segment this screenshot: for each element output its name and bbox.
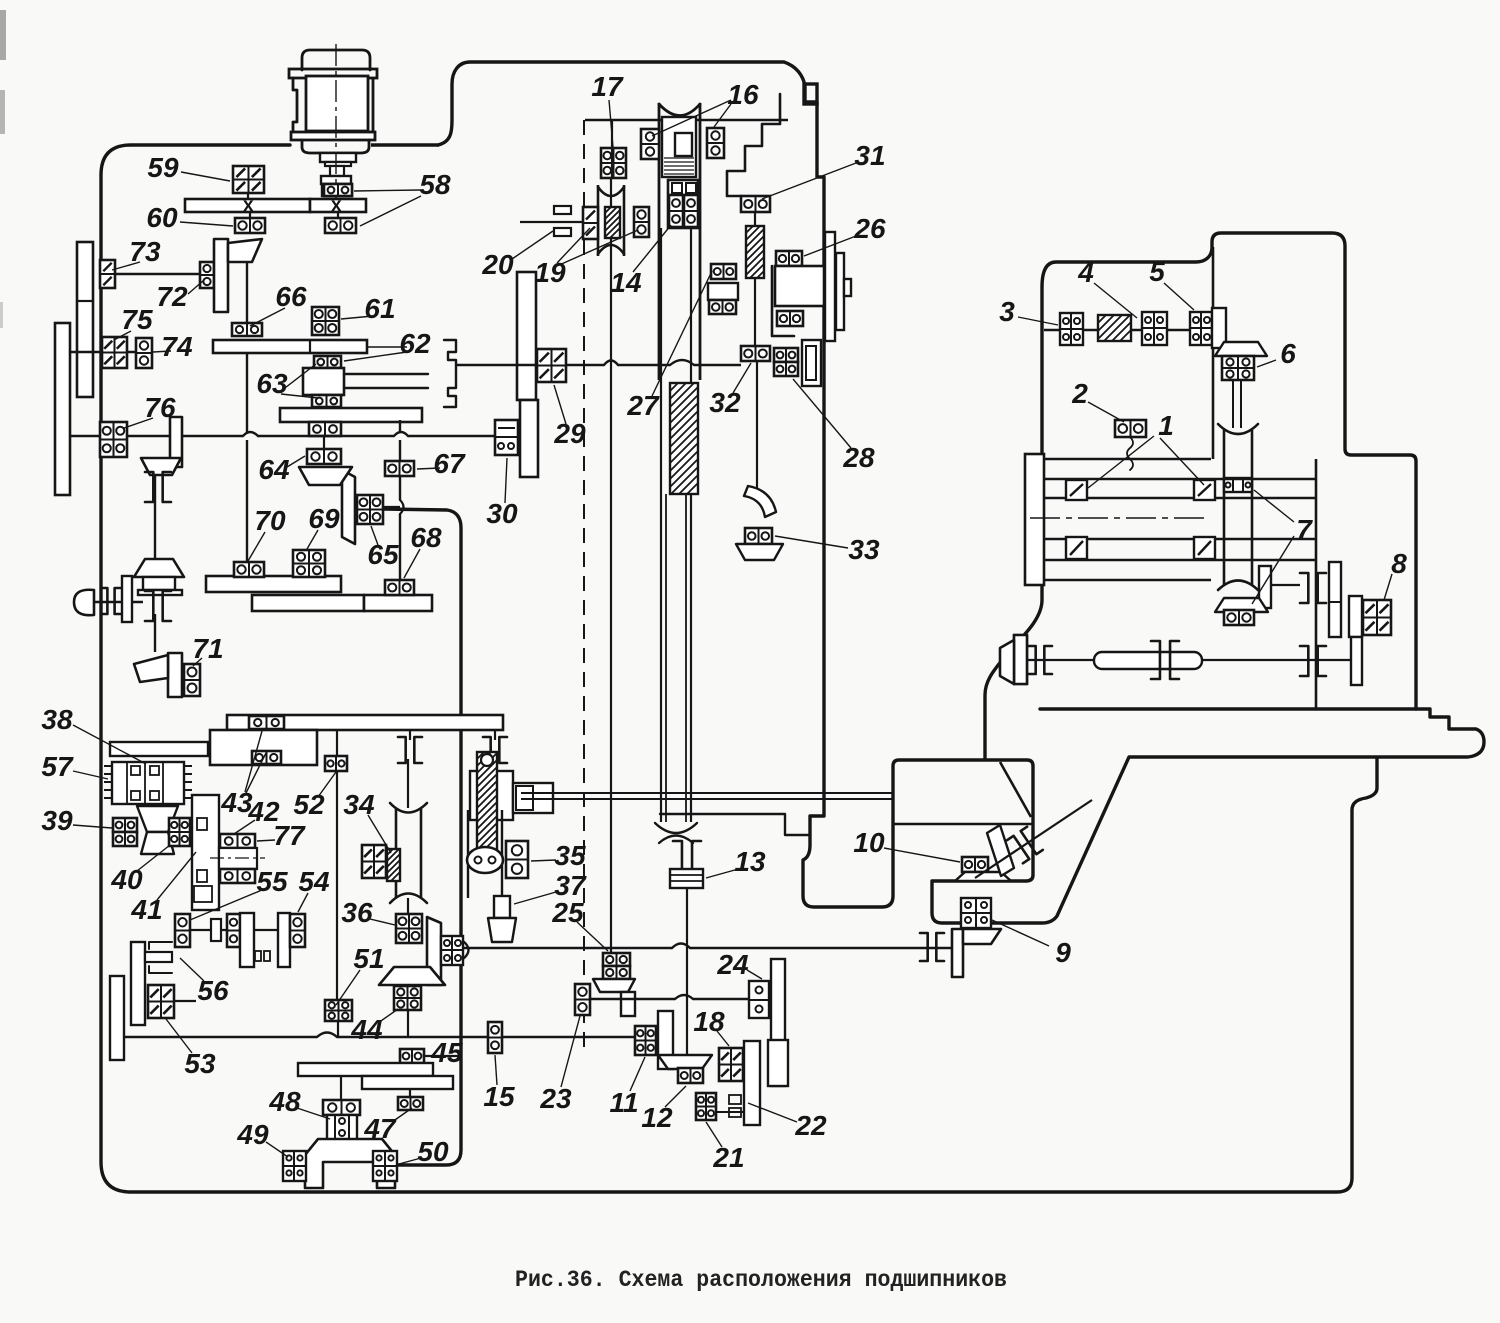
motor bottom cap xyxy=(302,140,369,153)
band body bottom xyxy=(1044,538,1316,540)
screw right line xyxy=(690,228,692,822)
gear bar 2 xyxy=(280,408,422,422)
wire x400 jog xyxy=(400,500,404,514)
bevel 33 cap xyxy=(736,544,783,560)
clutch square b xyxy=(131,791,140,800)
shaft y1037 a xyxy=(124,1036,317,1038)
head inner top line xyxy=(585,119,788,121)
bevel flag 25 xyxy=(621,992,635,1016)
svg-text:31: 31 xyxy=(854,140,885,171)
motor coupling upper xyxy=(321,176,351,184)
bevel flag 9 xyxy=(952,929,963,977)
band line 4 xyxy=(1044,579,1211,581)
bearing 66 xyxy=(232,323,262,336)
bearing 60 xyxy=(235,218,265,233)
gear plate 54a xyxy=(240,913,254,967)
bevel gear at 72 xyxy=(214,239,228,312)
gear bar 5 xyxy=(364,595,432,611)
bearing 14b xyxy=(684,195,698,227)
coupling marks mid xyxy=(1151,641,1160,679)
pulley 34 bottom saddle xyxy=(390,894,427,904)
pulley housing wall xyxy=(772,266,794,336)
gear quill plate xyxy=(192,795,219,910)
bearing 55b xyxy=(227,914,240,947)
spindle cell a xyxy=(672,183,682,193)
svg-text:24: 24 xyxy=(716,949,749,980)
bearing 53 xyxy=(148,985,174,1018)
gear plate knee a xyxy=(1329,562,1341,637)
pulley 19 top saddle xyxy=(598,187,624,196)
svg-text:16: 16 xyxy=(727,79,759,110)
bearing 43a xyxy=(249,716,284,729)
gear hatch 34 xyxy=(387,849,400,881)
bearing 46 nub xyxy=(463,941,469,959)
svg-text:58: 58 xyxy=(419,169,451,200)
diagonal pto shaft xyxy=(975,800,1092,878)
arm to selector xyxy=(344,374,428,388)
wire 47 stem xyxy=(409,1089,411,1097)
bevel flag 51 xyxy=(427,917,441,985)
wire 17 up xyxy=(611,120,613,148)
motor shaft neck xyxy=(330,166,344,176)
shaft y1037 hump xyxy=(317,1033,337,1038)
wire 59 stem xyxy=(247,193,249,199)
housing tab top right xyxy=(804,84,817,104)
wire x400 top xyxy=(399,420,401,432)
svg-text:74: 74 xyxy=(161,331,193,362)
shaft y1037 c xyxy=(461,1036,488,1038)
knee vshaft upper xyxy=(1232,380,1234,428)
bearing 14a xyxy=(669,195,683,227)
wire 52 up xyxy=(336,730,338,756)
svg-text:47: 47 xyxy=(363,1113,397,1144)
svg-text:9: 9 xyxy=(1055,937,1071,968)
pulley 34 left line xyxy=(395,808,398,898)
knee low shaft b xyxy=(1202,659,1351,661)
svg-text:69: 69 xyxy=(308,503,340,534)
shaft y999 a xyxy=(590,998,675,1000)
wire 48 stem xyxy=(340,1076,342,1100)
coupling marks below cone xyxy=(145,591,153,621)
cone pair xyxy=(137,806,178,832)
svg-text:59: 59 xyxy=(147,152,179,183)
bearing 58a xyxy=(324,184,352,196)
svg-text:21: 21 xyxy=(712,1142,744,1173)
shaft y352 xyxy=(70,351,136,353)
svg-text:37: 37 xyxy=(554,870,587,901)
motor body right xyxy=(372,78,375,132)
bearing 19b xyxy=(634,207,649,237)
svg-text:5: 5 xyxy=(1149,256,1165,287)
clutch square c xyxy=(150,766,159,775)
gear block 27 xyxy=(708,283,738,300)
bearing under hub xyxy=(777,311,803,326)
svg-text:4: 4 xyxy=(1077,257,1094,288)
svg-text:7: 7 xyxy=(1296,514,1313,545)
barrel right xyxy=(1251,430,1254,585)
band flange xyxy=(1025,454,1044,585)
vertical shaft x611 xyxy=(610,178,612,953)
bevel 33 hook xyxy=(744,486,776,517)
svg-text:65: 65 xyxy=(367,539,399,570)
wire x495 up xyxy=(494,730,496,740)
svg-text:29: 29 xyxy=(553,418,586,449)
shaft y436 hump2 xyxy=(394,432,408,436)
gear block 63 xyxy=(303,368,344,395)
bearing 69 xyxy=(293,550,325,577)
gear plate left B xyxy=(55,323,70,495)
coupling marks diagonal xyxy=(1007,827,1043,864)
shaft y436 left xyxy=(70,435,243,437)
wire x400 low xyxy=(399,514,401,580)
bearing 21 xyxy=(696,1093,716,1120)
bearing 67 xyxy=(385,461,414,476)
apron step lines xyxy=(660,814,809,835)
bearing 48b xyxy=(327,1115,357,1140)
gear plate knee b xyxy=(1349,596,1362,637)
pulley 34 top saddle xyxy=(390,803,427,813)
wire x400 down xyxy=(399,440,401,461)
svg-text:33: 33 xyxy=(848,534,880,565)
bearing 40-41 xyxy=(169,818,190,846)
vertical shaft x337 xyxy=(336,771,338,1000)
gear plate 28 xyxy=(802,340,821,386)
clutch divider 3 xyxy=(162,762,164,804)
screw left line xyxy=(660,228,662,822)
svg-text:x: x xyxy=(331,195,342,216)
motor centerline xyxy=(335,44,337,198)
quill centerline xyxy=(210,857,265,859)
head inner staircase wall xyxy=(727,94,780,196)
coupling marks knee a xyxy=(1300,573,1308,603)
svg-text:32: 32 xyxy=(709,387,741,418)
screw hatch gear xyxy=(670,383,698,494)
coupling marks screw xyxy=(673,841,682,871)
bearing 64 xyxy=(307,449,341,464)
wire 27shaft down xyxy=(754,278,756,346)
shaft y948 b xyxy=(690,947,952,949)
bearing 30 xyxy=(495,420,518,455)
band line 3 xyxy=(1044,559,1316,561)
machine housing outline (left column, bottom bed) xyxy=(101,145,1377,1192)
shaft y999 b xyxy=(693,998,749,1000)
gearbox divider line xyxy=(893,823,1033,826)
coupling marks x495 xyxy=(483,737,491,763)
bearing 33 xyxy=(745,528,772,544)
motor stator xyxy=(306,76,368,131)
coupling hatch 4 xyxy=(1098,315,1131,341)
bevel gear 71 xyxy=(168,653,182,697)
gear plate 30 xyxy=(520,400,538,477)
svg-text:28: 28 xyxy=(842,442,875,473)
shaft y930 xyxy=(190,929,290,931)
gear bar divider xyxy=(309,340,311,353)
bevel cap 6 xyxy=(1215,342,1267,356)
bearing 25 xyxy=(603,953,630,966)
bearing 7b xyxy=(1224,610,1254,625)
bearing 1a xyxy=(1066,480,1087,500)
bearing 55 xyxy=(175,914,190,947)
svg-text:36: 36 xyxy=(341,897,373,928)
part 37 cup xyxy=(488,918,516,942)
coupling marks 9 xyxy=(920,933,928,961)
wire 66 down xyxy=(246,353,248,432)
svg-text:40: 40 xyxy=(110,864,143,895)
shaft y365 c xyxy=(694,364,741,366)
barrel left xyxy=(1223,430,1226,585)
selector bracket 62 xyxy=(444,340,456,407)
bevel flag left xyxy=(1014,635,1027,684)
svg-text:2: 2 xyxy=(1071,378,1088,409)
wire x400 mid xyxy=(399,476,401,500)
bevel cap 11 xyxy=(658,1055,712,1069)
chain top circle xyxy=(481,754,493,766)
bearing 72 xyxy=(200,262,214,288)
svg-text:Рис.36. Схема расположения под: Рис.36. Схема расположения подшипников xyxy=(515,1267,1007,1293)
svg-text:15: 15 xyxy=(483,1081,515,1112)
knee inner wall right xyxy=(1315,459,1318,709)
bevel gear 64 xyxy=(342,470,355,544)
bearing 3 xyxy=(1060,313,1083,345)
pulley 34 right line xyxy=(420,808,423,898)
coupling marks left xyxy=(1028,646,1036,674)
bearing 27b xyxy=(709,300,736,314)
bearing 63c xyxy=(312,395,341,407)
svg-text:75: 75 xyxy=(121,304,153,335)
shaft y365 hump1 xyxy=(604,361,618,366)
spindle nut xyxy=(675,133,692,156)
gear bar upper left xyxy=(185,199,310,212)
spindle lower housing xyxy=(668,180,698,228)
bevel cap 25 xyxy=(593,979,635,992)
spindle right line xyxy=(699,103,702,380)
screw inner left xyxy=(665,494,667,822)
svg-text:8: 8 xyxy=(1391,548,1407,579)
motor M top cap xyxy=(302,50,370,70)
scan artifact marks left edge xyxy=(0,10,6,60)
wire 60 stem xyxy=(249,212,251,218)
pulley hub hatch xyxy=(605,207,620,238)
bevel flag low left xyxy=(1014,635,1027,684)
svg-text:71: 71 xyxy=(192,633,223,664)
svg-text:18: 18 xyxy=(693,1006,725,1037)
bracket plate 56 xyxy=(131,942,145,1025)
cone gear neck xyxy=(143,577,175,590)
svg-text:49: 49 xyxy=(236,1119,269,1150)
bearing 4 xyxy=(1142,312,1167,345)
screw inner right xyxy=(685,494,687,822)
spindle cell b xyxy=(686,183,696,193)
quill block xyxy=(219,848,257,869)
bearing 6 xyxy=(1222,356,1254,380)
motor shaft step 1 xyxy=(320,153,356,162)
clutch square d xyxy=(150,791,159,800)
shaft knee y330 xyxy=(1044,329,1190,331)
cone gear cap xyxy=(134,559,184,577)
spindle thread lines xyxy=(664,157,694,159)
gear hatch 27shaft xyxy=(746,226,764,278)
wire 53 right xyxy=(174,1000,196,1002)
shaft y948 a xyxy=(462,947,672,949)
svg-text:51: 51 xyxy=(353,943,384,974)
coupling 13 xyxy=(670,869,703,888)
wire 7 to gear xyxy=(1271,584,1300,586)
gear bar 3 xyxy=(206,576,341,592)
motor flange lower xyxy=(291,132,375,140)
svg-text:60: 60 xyxy=(146,202,178,233)
wire y436 bevel down xyxy=(154,475,156,558)
belt bar lower xyxy=(554,228,571,236)
bearing 52 xyxy=(325,756,347,771)
svg-text:3: 3 xyxy=(999,296,1015,327)
motor coupling body xyxy=(322,184,352,196)
chain box inner xyxy=(516,786,533,810)
svg-text:10: 10 xyxy=(853,827,885,858)
svg-text:14: 14 xyxy=(610,267,642,298)
gear bar 61-66 xyxy=(213,340,367,353)
motor body left xyxy=(293,78,297,132)
svg-text:62: 62 xyxy=(399,328,431,359)
svg-text:55: 55 xyxy=(256,866,288,897)
svg-text:67: 67 xyxy=(433,448,466,479)
bearing 49 xyxy=(283,1151,306,1181)
feed gearbox inner wall xyxy=(381,509,461,1165)
gear plate 28 inner xyxy=(806,346,816,380)
wire 65 right xyxy=(383,506,400,508)
bracket mark b xyxy=(149,966,172,973)
bearing 7a xyxy=(1224,478,1252,492)
svg-text:17: 17 xyxy=(591,71,624,102)
shaft y1037 b xyxy=(337,1036,461,1038)
bevel cap 7 xyxy=(1215,598,1268,612)
bearing 58b xyxy=(325,218,356,233)
svg-text:48: 48 xyxy=(268,1086,301,1117)
svg-text:20: 20 xyxy=(481,249,514,280)
bearing 36b xyxy=(394,986,421,1010)
svg-text:23: 23 xyxy=(539,1083,572,1114)
band line 1 xyxy=(1044,458,1211,460)
svg-text:54: 54 xyxy=(298,866,330,897)
bearing 46 xyxy=(441,936,463,965)
svg-text:70: 70 xyxy=(254,505,286,536)
bevel gear on y436 xyxy=(170,417,182,467)
svg-text:38: 38 xyxy=(41,704,73,735)
bearing 8 xyxy=(1363,600,1391,635)
pulley 19 right line xyxy=(623,185,626,256)
svg-text:39: 39 xyxy=(41,805,73,836)
flange right 2 xyxy=(836,253,844,330)
wire 31 down xyxy=(754,212,756,226)
svg-text:1: 1 xyxy=(1158,410,1174,441)
svg-text:44: 44 xyxy=(350,1014,383,1045)
band body top xyxy=(1044,497,1316,499)
wire cone down xyxy=(154,614,156,652)
top edge segment right of motor xyxy=(371,143,439,146)
gear bar 47b xyxy=(362,1076,453,1089)
gear bar 47a xyxy=(298,1063,433,1076)
shaft y999 hump xyxy=(675,995,693,999)
bearing 63a xyxy=(314,356,341,368)
block 56a xyxy=(211,919,221,941)
bearing 47 xyxy=(398,1097,423,1110)
gear plate 24b xyxy=(768,1040,788,1086)
svg-text:6: 6 xyxy=(1280,338,1296,369)
coupling marks low shaft xyxy=(1300,646,1308,676)
bearing 9 xyxy=(961,898,991,928)
knee housing outline xyxy=(985,233,1416,758)
bearing 65 xyxy=(357,495,383,524)
pulley 19 bottom saddle xyxy=(598,245,624,254)
bearing 36 xyxy=(396,914,422,943)
wire 17 stem xyxy=(611,148,613,178)
bearing 11 xyxy=(635,1026,656,1055)
coupling marks y485 xyxy=(145,472,153,502)
screw bottom saddle a xyxy=(655,823,697,833)
bracket arm 56 xyxy=(145,952,172,962)
bearing 1c xyxy=(1066,537,1087,559)
wire 21-22 xyxy=(716,1111,744,1113)
clutch teeth right xyxy=(184,765,192,767)
shaft y365 stub left xyxy=(456,364,537,366)
bearing 45 xyxy=(400,1049,424,1063)
svg-text:76: 76 xyxy=(144,392,176,423)
bearing 34 xyxy=(362,845,386,878)
bearing 24 xyxy=(749,981,769,1018)
flange right 1 xyxy=(825,232,835,341)
svg-text:35: 35 xyxy=(554,840,586,871)
svg-text:50: 50 xyxy=(417,1136,449,1167)
clutch square a xyxy=(131,766,140,775)
gear plate divider xyxy=(77,300,93,302)
coupling marks x410 xyxy=(398,737,406,763)
bearing 75 xyxy=(102,337,127,368)
svg-text:53: 53 xyxy=(184,1048,216,1079)
clutch teeth left xyxy=(104,765,112,767)
bevel cap 51 xyxy=(379,967,445,985)
screw bottom saddle b xyxy=(659,836,693,844)
bearing 27 xyxy=(711,264,736,279)
svg-text:64: 64 xyxy=(258,454,290,485)
gear bar upper right xyxy=(310,199,366,212)
wire 63b-64 xyxy=(323,435,325,449)
bearing 16 left xyxy=(641,129,659,159)
pulley hub 28 xyxy=(775,266,824,306)
motor flange upper xyxy=(289,69,377,78)
bearing 31 xyxy=(741,196,770,212)
svg-text:12: 12 xyxy=(641,1102,673,1133)
chain hatch xyxy=(477,752,497,850)
wire 34 up xyxy=(407,759,409,808)
shaft y365 a xyxy=(566,364,604,366)
bevel flag 5 xyxy=(1212,308,1226,348)
bearing 26 xyxy=(776,251,802,266)
bevel housing 49-50 xyxy=(305,1139,395,1188)
bearing 10 xyxy=(962,857,988,872)
wire 58b stem xyxy=(337,212,339,218)
bearing 32 xyxy=(741,346,770,361)
gear bar 4 xyxy=(252,595,364,611)
knee inner tower wall xyxy=(1212,247,1215,459)
bearing 39 xyxy=(113,818,137,832)
bevel flag 11 xyxy=(658,1011,673,1069)
svg-text:34: 34 xyxy=(343,789,375,820)
svg-text:13: 13 xyxy=(734,846,766,877)
barrel bottom saddle xyxy=(1218,581,1258,591)
wire 34 down xyxy=(407,898,409,914)
bearing 1b xyxy=(1194,480,1215,500)
band centerline xyxy=(1030,517,1210,519)
cone gear base xyxy=(138,590,182,595)
